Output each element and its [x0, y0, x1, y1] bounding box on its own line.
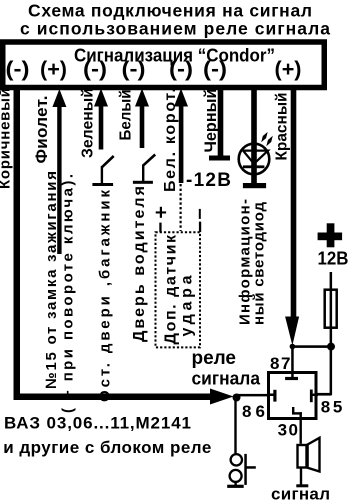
svg-text:№15 от замка зажигания: №15 от замка зажигания — [43, 171, 60, 389]
svg-text:(-): (-) — [169, 58, 193, 81]
svg-text:(+): (+) — [275, 58, 302, 81]
svg-text:Доп. датчик: Доп. датчик — [163, 234, 180, 344]
svg-text:Красный: Красный — [274, 93, 291, 161]
svg-text:(-): (-) — [83, 58, 107, 81]
svg-text:с использованием реле сигнала: с использованием реле сигнала — [20, 18, 330, 38]
svg-text:Коричневый: Коричневый — [0, 88, 14, 189]
svg-text:реле: реле — [192, 348, 237, 369]
svg-text:ный светодиод: ный светодиод — [251, 202, 268, 325]
svg-text:Бел. корот.: Бел. корот. — [162, 88, 179, 192]
svg-text:( + при повороте ключа).: ( + при повороте ключа). — [60, 174, 77, 413]
svg-text:и другие с блоком реле: и другие с блоком реле — [3, 438, 211, 457]
svg-text:(-): (-) — [203, 58, 227, 81]
svg-text:-12В: -12В — [186, 170, 231, 191]
svg-text:(-): (-) — [6, 58, 30, 81]
svg-text:Зеленый: Зеленый — [80, 88, 97, 158]
svg-text:Схема подключения на сигнал: Схема подключения на сигнал — [28, 0, 312, 20]
svg-text:ВАЗ 03,06...11,М2141: ВАЗ 03,06...11,М2141 — [4, 414, 191, 433]
svg-text:Фиолет.: Фиолет. — [32, 96, 51, 164]
svg-text:30: 30 — [278, 420, 298, 439]
svg-text:(+): (+) — [40, 58, 67, 81]
svg-text:87: 87 — [270, 354, 291, 373]
svg-text:сигнала: сигнала — [192, 369, 261, 389]
svg-text:12В: 12В — [318, 249, 349, 269]
svg-text:Черный: Черный — [202, 89, 220, 153]
svg-text:Белый: Белый — [118, 90, 135, 141]
svg-text:(-): (-) — [122, 58, 146, 81]
